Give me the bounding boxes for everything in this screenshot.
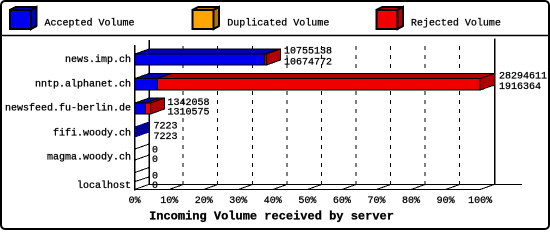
bar newsfeed.fu-berlin.de: accepted (blue) front face [135,103,146,114]
svg-text:0%: 0% [129,196,141,207]
svg-text:28294611: 28294611 [499,72,547,83]
svg-text:1310575: 1310575 [168,108,210,119]
svg-text:10%: 10% [160,196,178,207]
svg-text:news.imp.ch: news.imp.ch [65,54,131,66]
bar news.imp.ch: rejected (red) end cap [267,49,281,65]
svg-text:localhost: localhost [77,180,131,192]
bar nntp.alphanet.ch: accepted (blue) front face [135,79,158,91]
bar localhost: zero bar white cap [135,168,149,182]
bar nntp.alphanet.ch: rejected (red) end cap [480,74,495,91]
svg-text:fifi.woody.ch: fifi.woody.ch [53,128,131,140]
x axis back line [149,184,522,186]
svg-text:70%: 70% [367,196,385,207]
svg-text:20%: 20% [195,196,213,207]
right wall 100% line (back plane) [494,39,496,185]
svg-text:10674772: 10674772 [284,58,332,69]
svg-text:magma.woody.ch: magma.woody.ch [47,152,131,164]
bar newsfeed.fu-berlin.de: rejected (red) front face [146,103,151,114]
svg-text:60%: 60% [333,196,351,207]
legend cube blue (Accepted) [10,7,37,29]
svg-text:50%: 50% [298,196,316,207]
svg-text:0: 0 [152,181,158,192]
legend cube red (Rejected) [377,7,404,29]
y axis front line [134,45,136,191]
bar fifi.woody.ch: accepted (blue) zero-length end cap [135,122,149,138]
svg-text:30%: 30% [229,196,247,207]
svg-text:0: 0 [152,155,158,166]
bar news.imp.ch: accepted (blue) top face [135,49,279,54]
svg-text:1916364: 1916364 [499,82,541,93]
svg-text:100%: 100% [468,196,492,207]
svg-text:7223: 7223 [154,122,178,133]
svg-text:nntp.alphanet.ch: nntp.alphanet.ch [35,78,131,90]
bar nntp.alphanet.ch: accepted (blue) top face [135,74,172,79]
svg-text:80%: 80% [402,196,420,207]
legend cube orange (Duplicated) [193,7,220,29]
x axis front line [135,189,481,191]
bar news.imp.ch: rejected (red) top face [265,49,281,54]
svg-text:newsfeed.fu-berlin.de: newsfeed.fu-berlin.de [5,103,131,115]
bar news.imp.ch: accepted (blue) front face [135,54,265,65]
bar news.imp.ch: rejected (red) front face [265,54,267,65]
legend separator line [1,35,549,37]
bar newsfeed.fu-berlin.de: accepted (blue) top face [135,98,160,103]
svg-text:Accepted Volume: Accepted Volume [45,18,135,30]
svg-text:40%: 40% [264,196,282,207]
x axis 3D ticks (diagonals 0%..100%) [135,185,495,190]
bar magma.woody.ch: zero bar white cap [135,144,149,160]
bar newsfeed.fu-berlin.de: rejected (red) top face [146,98,165,103]
bar nntp.alphanet.ch: rejected (red) top face [158,74,495,79]
svg-text:90%: 90% [437,196,455,207]
svg-text:Rejected Volume: Rejected Volume [411,18,501,30]
bar newsfeed.fu-berlin.de: rejected (red) end cap [151,98,165,114]
svg-text:10755138: 10755138 [284,47,332,58]
bar nntp.alphanet.ch: rejected (red) front face [158,79,481,91]
dashed gridlines 10%..90% (back plane) [183,46,459,185]
svg-text:7223: 7223 [154,132,178,143]
y axis back line [148,40,150,185]
svg-text:Incoming Volume received by se: Incoming Volume received by server [149,210,394,224]
svg-text:Duplicated Volume: Duplicated Volume [227,18,329,30]
